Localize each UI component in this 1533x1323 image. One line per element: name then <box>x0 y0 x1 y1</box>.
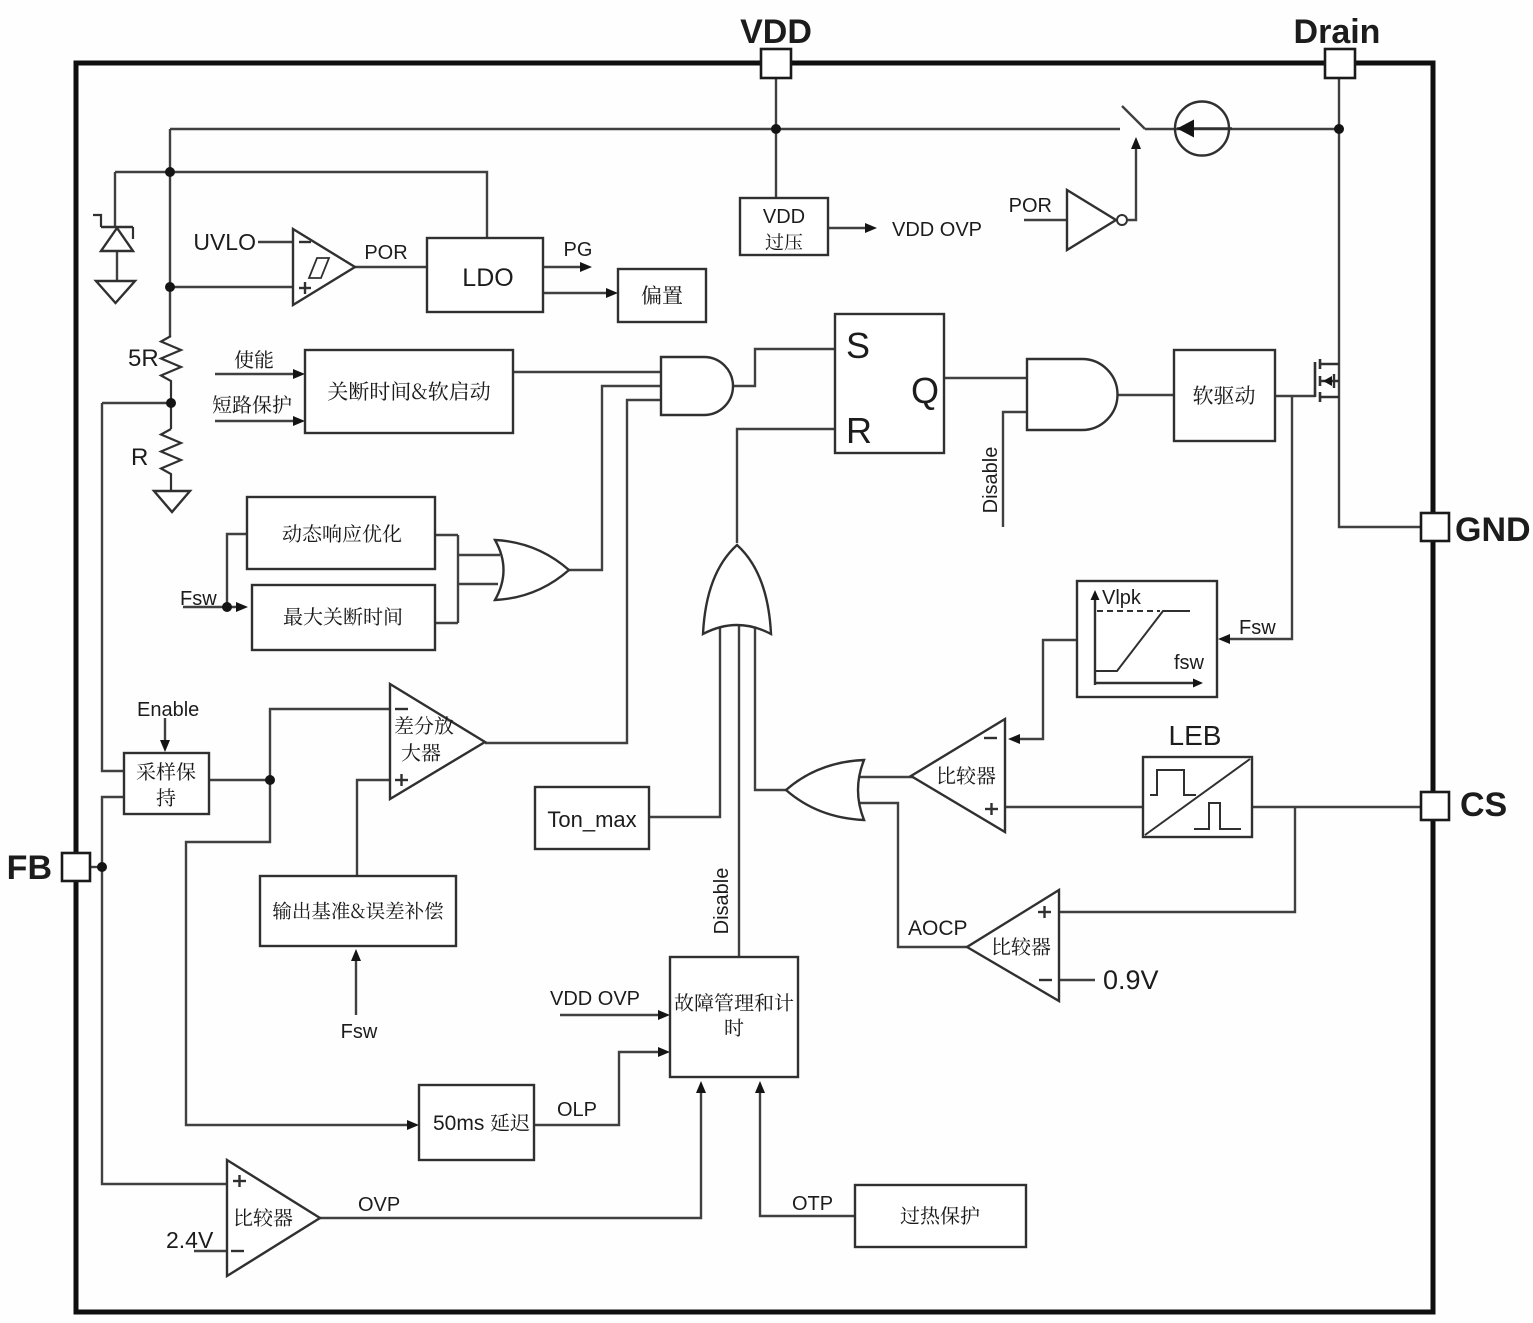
svg-text:fsw: fsw <box>1174 652 1205 674</box>
svg-text:PG: PG <box>564 239 593 261</box>
svg-text:Enable: Enable <box>137 699 199 721</box>
svg-text:CS: CS <box>1460 786 1507 824</box>
svg-text:OVP: OVP <box>358 1194 400 1216</box>
svg-text:GND: GND <box>1455 511 1531 549</box>
svg-text:Disable: Disable <box>980 447 1002 514</box>
svg-text:S: S <box>846 325 870 366</box>
svg-text:UVLO: UVLO <box>193 229 256 255</box>
svg-text:VDD: VDD <box>740 13 812 51</box>
svg-text:VDD OVP: VDD OVP <box>550 988 640 1010</box>
svg-text:Drain: Drain <box>1294 13 1381 51</box>
svg-text:R: R <box>846 410 872 451</box>
svg-text:FB: FB <box>7 849 52 887</box>
svg-text:5R: 5R <box>128 345 159 372</box>
svg-text:LDO: LDO <box>462 264 513 292</box>
svg-text:POR: POR <box>364 242 407 264</box>
svg-text:Ton_max: Ton_max <box>547 807 636 832</box>
svg-text:AOCP: AOCP <box>908 917 968 940</box>
svg-text:Disable: Disable <box>711 868 733 935</box>
svg-text:VDD: VDD <box>763 206 805 228</box>
svg-text:POR: POR <box>1009 195 1052 217</box>
svg-text:OLP: OLP <box>557 1099 597 1121</box>
svg-text:Fsw: Fsw <box>180 588 217 610</box>
svg-text:LEB: LEB <box>1169 720 1222 751</box>
svg-text:2.4V: 2.4V <box>166 1227 214 1253</box>
svg-text:VDD OVP: VDD OVP <box>892 219 982 241</box>
svg-text:Fsw: Fsw <box>341 1021 378 1043</box>
svg-text:Vlpk: Vlpk <box>1102 587 1142 609</box>
svg-text:Fsw: Fsw <box>1239 617 1276 639</box>
svg-text:50ms: 50ms <box>433 1112 484 1135</box>
svg-text:OTP: OTP <box>792 1193 833 1215</box>
svg-text:R: R <box>131 444 148 471</box>
svg-text:Q: Q <box>911 370 939 411</box>
svg-text:0.9V: 0.9V <box>1103 965 1159 995</box>
